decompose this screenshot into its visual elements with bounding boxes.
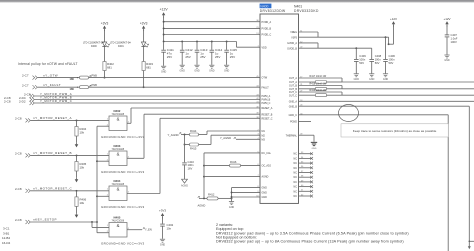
svg-text:2-C8: 2-C8 (15, 152, 22, 156)
text supply note N403 (101, 170, 144, 174)
net nY_MOTOR_RESET_C (31, 187, 110, 191)
text internal pullup note (18, 62, 78, 66)
no-connect pin 3 (299, 162, 314, 165)
svg-text:PVDD_B: PVDD_B (262, 28, 272, 31)
wire OUT pins R417 (299, 78, 343, 82)
svg-text:2-C8: 2-C8 (4, 99, 11, 103)
svg-text:C408: C408 (375, 54, 382, 58)
svg-text:R419 10m0 1W: R419 10m0 1W (310, 89, 327, 92)
svg-text:C407: C407 (451, 33, 458, 37)
IC N400 DRV8312DDW (260, 14, 299, 203)
svg-text:D400: D400 (91, 45, 97, 48)
svg-text:GND: GND (194, 69, 200, 72)
net label Y_AGND right (220, 136, 260, 140)
note keep trace box (341, 124, 448, 137)
net nY_MOTOR_RESET_B (31, 151, 110, 155)
svg-text:25V: 25V (215, 55, 220, 59)
resistor R402 (103, 62, 114, 71)
ground thermal pad (311, 142, 317, 149)
text variants note (216, 223, 409, 244)
svg-text:GND_C: GND_C (289, 114, 298, 117)
svg-text:PVDD_A: PVDD_A (262, 21, 272, 24)
svg-text:74LVC1G08: 74LVC1G08 (112, 184, 125, 186)
text DRV8332DKD (294, 9, 319, 13)
svg-text:2-C8: 2-C8 (15, 187, 22, 191)
svg-text:10k: 10k (80, 166, 85, 170)
svg-text:100n: 100n (375, 58, 381, 62)
ground for C414 (209, 65, 215, 72)
net label PNB on nY_OTW (89, 74, 97, 78)
svg-text:NC: NC (294, 186, 298, 189)
svg-text:nY_MOTOR_RESET_A: nY_MOTOR_RESET_A (33, 116, 72, 120)
text NC pins (294, 153, 298, 198)
svg-text:180: 180 (70, 77, 75, 81)
wire estop to gate N405 inputs (91, 221, 109, 233)
svg-text:Y_AGND: Y_AGND (168, 133, 179, 137)
svg-text:NC: NC (294, 162, 298, 165)
svg-text:+12V: +12V (443, 17, 450, 21)
wire R418 junction (341, 86, 343, 89)
capacitor C408 (369, 48, 381, 73)
svg-text:DRV8332DKD: DRV8332DKD (294, 9, 319, 13)
ground AGND symbol (181, 179, 188, 187)
wire PVDD rail 2 (163, 27, 260, 29)
ground for C402 (160, 239, 166, 246)
svg-text:Keep trace to sense resistors: Keep trace to sense resistors (10mohm) a… (353, 129, 437, 133)
svg-text:NC: NC (294, 153, 298, 156)
svg-text:&: & (117, 223, 120, 228)
svg-text:GND: GND (369, 78, 375, 81)
svg-text:Internal pullup for nOTW and n: Internal pullup for nOTW and nFAULT (18, 62, 78, 66)
wire OUT pins R418 (299, 86, 343, 89)
svg-text:GND: GND (262, 187, 268, 190)
svg-text:GND: GND (354, 78, 360, 81)
wire PVDD rail 3 (163, 34, 260, 36)
ground for C413 (194, 65, 200, 72)
svg-text:10n: 10n (167, 226, 172, 230)
svg-text:R412: R412 (208, 192, 215, 196)
no-connect pin 1 (299, 152, 314, 155)
svg-text:DC_CAL: DC_CAL (262, 152, 272, 155)
sheet ref 2-C8 for nY_MOTOR_RESET_C (15, 187, 30, 193)
svg-text:25V: 25V (167, 55, 172, 59)
no-connect pin 2 (299, 157, 314, 160)
svg-text:N401: N401 (294, 4, 302, 8)
resistor R412 (207, 192, 232, 200)
ground for C411 (161, 66, 167, 73)
svg-text:GND: GND (180, 69, 186, 72)
power +12V for C407 (443, 17, 450, 35)
wire OUT pins R419 (299, 92, 343, 95)
ground for C409 (354, 74, 360, 81)
wire estop to gate N403 input (97, 160, 109, 162)
svg-text:50V: 50V (359, 61, 364, 65)
resistor R403 (142, 62, 153, 71)
svg-text:AGND: AGND (181, 185, 188, 188)
svg-text:GROUND=GND VCC=+3V3: GROUND=GND VCC=+3V3 (101, 170, 144, 174)
net label PNB on nY_FAULT (89, 83, 97, 87)
LED D400 (83, 41, 110, 48)
resistor R419 10m0 (310, 89, 343, 97)
wire PVDD to +12V (389, 43, 394, 45)
svg-text:Y_MOTOR_PWM_C: Y_MOTOR_PWM_C (40, 99, 72, 103)
svg-text:100n: 100n (359, 58, 365, 62)
wire N405 output net label (127, 228, 152, 232)
svg-text:NC: NC (294, 167, 298, 170)
AND gate N405 (107, 215, 130, 237)
ground for C407 (444, 55, 450, 62)
text N401 (294, 4, 302, 8)
svg-text:PVDD_C: PVDD_C (262, 34, 272, 37)
svg-text:PGND: PGND (290, 121, 297, 124)
resistor R406 10k pulldown (75, 190, 87, 213)
svg-text:GND: GND (444, 59, 450, 62)
svg-text:16V: 16V (188, 166, 193, 170)
wire GND_C to corner (299, 115, 449, 251)
wire estop to gate N404 input (97, 195, 109, 197)
svg-text:681: 681 (107, 66, 112, 70)
resistor R401 180 (70, 86, 261, 91)
svg-text:2-C7: 2-C7 (22, 74, 29, 78)
svg-text:NC: NC (294, 176, 298, 179)
svg-text:NC: NC (294, 157, 298, 160)
wire D400 to R402 (104, 47, 106, 62)
power flag GND for R405 (75, 178, 79, 183)
svg-text:GND: GND (312, 148, 317, 150)
svg-text:N404: N404 (114, 179, 121, 183)
no-connect pin 5 (299, 171, 314, 174)
wire phase output R417 (342, 81, 474, 83)
svg-text:NC: NC (294, 181, 298, 184)
svg-text:V3P3: V3P3 (291, 36, 298, 39)
svg-text:+12V: +12V (160, 8, 169, 12)
text IC right pin names (286, 31, 298, 137)
svg-text:74LVC1G08: 74LVC1G08 (112, 149, 125, 151)
power +12V right (388, 17, 397, 45)
power flag GND for R404 (75, 143, 79, 148)
svg-text:3-B1: 3-B1 (3, 231, 10, 235)
no-connect pin 9 (299, 190, 314, 193)
svg-text:C409: C409 (359, 54, 366, 58)
svg-text:RESET_B: RESET_B (262, 113, 273, 116)
wire GVDD_A pin jog (299, 43, 319, 48)
net Y_MOTOR_PWM_B (35, 95, 261, 99)
no-connect pin 6 (299, 176, 314, 179)
net nY_MOTOR_RESET_A (31, 116, 110, 120)
power +3V3 for D401 (140, 21, 148, 42)
no-connect pin 8 (299, 185, 314, 188)
wire estop to gate N402 input (97, 125, 109, 127)
capacitor C414 (210, 41, 223, 65)
sheet ref 2-C8 for nY_MOTOR_RESET_B (15, 152, 30, 158)
svg-text:16-D4: 16-D4 (2, 241, 11, 245)
ground for C415 (224, 65, 230, 72)
svg-text:AGND: AGND (198, 203, 206, 207)
text supply note N402 (101, 135, 144, 139)
wire GND_A to edge (299, 100, 474, 102)
resistor R415 (184, 135, 260, 150)
wire phase output R418 (342, 88, 474, 90)
svg-text:OUT_C: OUT_C (289, 94, 297, 97)
svg-text:&: & (117, 117, 120, 122)
svg-text:N400: N400 (260, 4, 268, 8)
no-connect pin 7 (299, 180, 314, 183)
svg-text:FAULT: FAULT (262, 86, 270, 89)
svg-text:nY_MOTOR_RESET_C: nY_MOTOR_RESET_C (33, 187, 73, 191)
net Y_MOTOR_PWM_C (35, 99, 261, 103)
capacitor C409 (354, 48, 366, 73)
wire N404 output to IC (127, 118, 260, 193)
resistor R418 10m0 (310, 82, 343, 90)
svg-text:nY_OTW: nY_OTW (43, 73, 58, 77)
svg-text:Y_AGND: Y_AGND (220, 136, 231, 140)
svg-text:100n: 100n (389, 58, 395, 62)
AND gate N404 (107, 179, 130, 201)
wire AGND pin stub (204, 176, 260, 178)
sheet ref 2-C8 for nKEY_ESTOP (15, 218, 30, 224)
resistor R414 (190, 129, 261, 136)
svg-text:R414: R414 (190, 129, 197, 133)
wire phase output R419 (342, 94, 474, 96)
svg-text:GND: GND (262, 192, 268, 195)
svg-text:+12V: +12V (390, 17, 397, 21)
svg-text:681: 681 (146, 66, 151, 70)
svg-text:nY_FAULT: nY_FAULT (43, 83, 61, 87)
wire nKEY_ESTOP riser (96, 126, 98, 233)
sheet refs nKEY_ESTOP list (2, 227, 11, 245)
svg-text:10k: 10k (80, 131, 85, 135)
ground for GND bus (229, 198, 235, 208)
svg-text:180: 180 (70, 87, 75, 91)
capacitor C412 (180, 41, 193, 65)
svg-text:PNB: PNB (92, 83, 98, 87)
sheet ref 2-C8 for nY_MOTOR_RESET_A (15, 117, 30, 123)
sheet refs for Y_MOTOR_PWM_B (4, 96, 34, 102)
svg-text:R417 10m0 1W: R417 10m0 1W (310, 75, 327, 78)
sheet refs for Y_MOTOR_PWM_C (4, 99, 34, 105)
svg-text:25V: 25V (230, 55, 235, 59)
wire THERMAL pad (299, 135, 315, 142)
svg-text:GND: GND (209, 69, 215, 72)
ground for C412 (180, 65, 186, 72)
resistor R404 10k pulldown (75, 119, 87, 142)
svg-text:&: & (117, 152, 120, 157)
capacitor C402 (160, 223, 173, 239)
svg-text:25V: 25V (200, 55, 205, 59)
svg-text:N403: N403 (114, 144, 121, 148)
wire PVDD rail 4 (163, 41, 260, 48)
net Y_MOTOR_PWM_A (35, 92, 261, 96)
svg-text:AGND: AGND (262, 176, 269, 179)
svg-text:GND: GND (160, 243, 166, 246)
capacitor C407 (445, 33, 458, 55)
net nY_OTW (38, 73, 80, 77)
svg-text:74LVC1G08: 74LVC1G08 (112, 114, 125, 116)
wire GVDD rail lower (299, 47, 372, 49)
resistor R417 10m0 (310, 75, 343, 84)
wire DC_CAL stub (203, 153, 260, 199)
svg-text:GND_B: GND_B (289, 105, 298, 108)
svg-text:NC: NC (294, 195, 298, 198)
text N400 selection (260, 4, 272, 9)
capacitor C411 (161, 43, 174, 66)
power +12V main (160, 8, 169, 43)
net label Y_AGND left (168, 133, 190, 138)
svg-text:GND: GND (262, 196, 268, 199)
text DRV8312DDW (260, 9, 286, 13)
svg-text:nKEY_ESTOP: nKEY_ESTOP (33, 218, 57, 222)
svg-text:LTD-C183KRKT-0#: LTD-C183KRKT-0# (110, 41, 131, 44)
svg-text:25V: 25V (185, 55, 190, 59)
svg-text:NC: NC (294, 190, 298, 193)
svg-text:GROUND=GND VCC=+3V3: GROUND=GND VCC=+3V3 (101, 205, 144, 209)
capacitor C410 (182, 160, 194, 179)
text IC left pin numbers (256, 20, 259, 197)
net nKEY_ESTOP (31, 218, 98, 222)
svg-text:D401: D401 (118, 45, 124, 48)
capacitor C415 (224, 41, 237, 65)
svg-text:GND: GND (224, 69, 230, 72)
svg-text:RESET_C: RESET_C (262, 117, 273, 120)
svg-text:Y_EN: Y_EN (145, 228, 152, 232)
net nY_FAULT (38, 83, 80, 87)
wire N402 output to IC (127, 108, 260, 123)
svg-text:GROUND=GND VCC=+3V3: GROUND=GND VCC=+3V3 (101, 242, 144, 246)
text supply note N404 (101, 205, 144, 209)
svg-text:2-C8: 2-C8 (15, 218, 22, 222)
capacitor C406 (383, 37, 395, 73)
svg-text:10k: 10k (80, 201, 85, 205)
svg-text:3-C1: 3-C1 (3, 227, 10, 231)
net label AGND bottom (198, 196, 208, 207)
svg-text:R416: R416 (230, 160, 237, 164)
svg-text:+3V3: +3V3 (101, 21, 109, 25)
wire R402 to bus (104, 71, 106, 79)
svg-text:R418 10m0 1W: R418 10m0 1W (310, 82, 327, 85)
svg-text:2-C8: 2-C8 (15, 117, 22, 121)
sheet ref 2-C7 for nY_FAULT (22, 83, 37, 89)
svg-text:12-B4: 12-B4 (2, 236, 10, 240)
resistor R405 10k pulldown (75, 154, 87, 177)
svg-text:GND: GND (161, 70, 167, 73)
text IC right pin numbers (300, 31, 303, 136)
wire VREG pin jog (299, 32, 319, 37)
no-connect pin 10 (299, 194, 314, 197)
no-connect pin 4 (299, 166, 314, 169)
svg-text:RESET_A: RESET_A (262, 107, 273, 110)
wire AGND column (184, 135, 186, 163)
wire GND pin stubs (231, 188, 260, 199)
power flag GND for R406 (75, 213, 79, 218)
text supply note N405 (101, 242, 144, 246)
svg-text:1.0uF: 1.0uF (451, 36, 458, 40)
resistor R416 (204, 160, 260, 167)
svg-text:R415: R415 (190, 147, 197, 151)
sheet refs for Y_MOTOR_PWM_A (24, 92, 34, 98)
capacitor C413 (195, 41, 208, 65)
svg-text:50V: 50V (389, 61, 394, 65)
svg-text:GROUND=GND VCC=+3V3: GROUND=GND VCC=+3V3 (101, 135, 144, 139)
svg-text:50V: 50V (375, 61, 380, 65)
wire R419 junction (341, 92, 343, 95)
power +3V3 for D400 (101, 21, 109, 42)
svg-text:DRV8312DDW: DRV8312DDW (260, 9, 286, 13)
svg-text:GND: GND (229, 206, 235, 209)
svg-text:PWM_C: PWM_C (262, 102, 271, 105)
LED D401 (110, 41, 149, 48)
sheet ref 2-C7 for nY_OTW (22, 74, 37, 80)
svg-text:+3V3: +3V3 (140, 21, 148, 25)
svg-text:OC_ADJ: OC_ADJ (262, 165, 272, 168)
power +3V3 for C402 (159, 209, 166, 224)
svg-text:OTW: OTW (262, 77, 268, 80)
svg-text:VREG: VREG (290, 31, 297, 34)
wire D401 to R403 (143, 47, 145, 62)
annotation circle sense resistors (339, 105, 359, 122)
AND gate N403 (107, 144, 130, 166)
svg-text:N405: N405 (114, 215, 121, 219)
svg-text:+3V3: +3V3 (159, 209, 166, 213)
ground for C408 (369, 74, 375, 81)
wire PGND stub (299, 121, 312, 123)
wire GND_B to corner (299, 106, 474, 249)
wire N403 output to IC (127, 114, 260, 158)
ground for C406 (383, 74, 389, 81)
svg-text:DRV8332 (power pad up) – up to: DRV8332 (power pad up) – up to 8A Contin… (216, 240, 404, 244)
AND gate N402 (107, 109, 130, 131)
wire R417 junction (341, 78, 343, 82)
svg-text:PNB: PNB (92, 74, 98, 78)
svg-text:NC: NC (294, 172, 298, 175)
svg-text:N402: N402 (114, 109, 121, 113)
resistor R400 180 (70, 76, 261, 81)
wire GVDD rail upper (299, 36, 389, 44)
svg-text:nY_MOTOR_RESET_B: nY_MOTOR_RESET_B (33, 151, 72, 155)
svg-text:2-C7: 2-C7 (22, 83, 29, 87)
svg-text:&: & (117, 187, 120, 192)
svg-text:C406: C406 (389, 54, 396, 58)
svg-text:GND_A: GND_A (289, 100, 298, 103)
wire PVDD rail 1 (163, 21, 260, 23)
svg-text:OUT_A: OUT_A (289, 77, 297, 80)
svg-text:GVDD_B: GVDD_B (287, 47, 297, 50)
svg-text:100V: 100V (451, 40, 457, 44)
svg-text:GVDD_A: GVDD_A (287, 42, 297, 45)
text IC left pin names (262, 21, 273, 199)
svg-text:2-D2: 2-D2 (19, 99, 26, 103)
svg-text:VDD: VDD (262, 46, 267, 49)
svg-text:GND: GND (383, 78, 389, 81)
svg-text:74LVC1G08: 74LVC1G08 (112, 220, 125, 222)
wire R403 to bus (143, 71, 145, 89)
svg-text:LTD-C183KRKT-0#: LTD-C183KRKT-0# (83, 41, 104, 44)
svg-text:THERMAL: THERMAL (286, 134, 298, 137)
